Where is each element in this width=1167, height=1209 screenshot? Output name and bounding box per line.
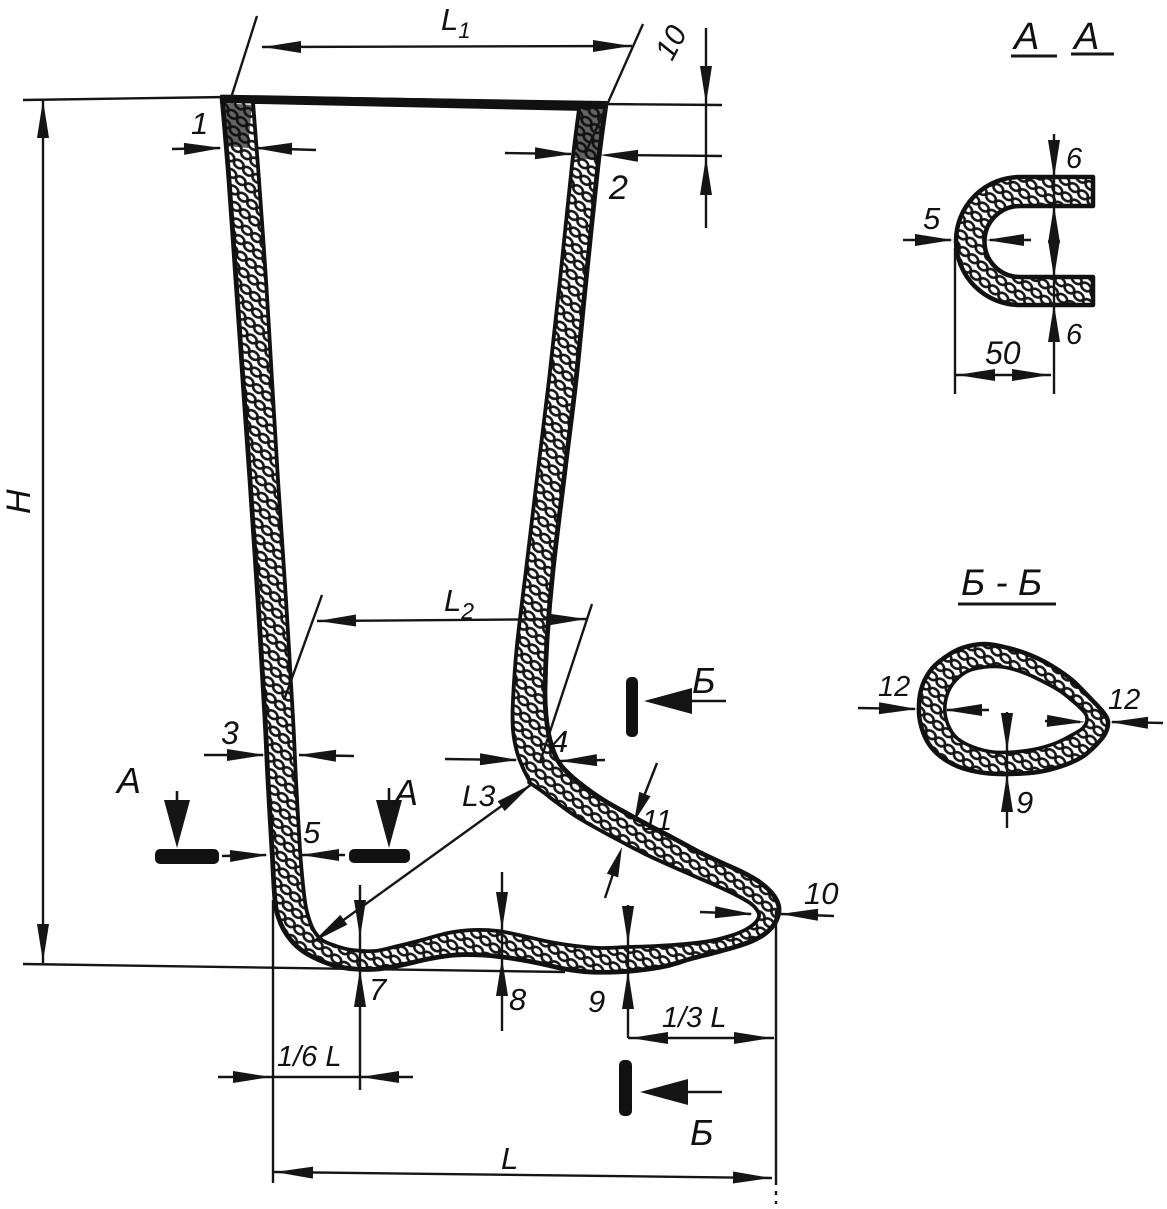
H dimension extension line top — [23, 97, 228, 100]
svg-text:6: 6 — [1066, 319, 1083, 351]
callout 9 line and arrows — [627, 905, 629, 1038]
1/6 L dimension line — [218, 1076, 413, 1078]
svg-text:Б: Б — [690, 1112, 713, 1153]
toe extension line — [775, 910, 777, 1185]
10 top dimension vertical line — [705, 28, 707, 228]
svg-text:L: L — [501, 1141, 518, 1176]
section Б marker top — [626, 677, 638, 737]
svg-text:4: 4 — [551, 724, 568, 759]
section A marker right — [349, 849, 410, 863]
L1 right extension (slanted) — [586, 24, 643, 152]
svg-text:12: 12 — [1108, 684, 1140, 716]
callout 4 arrows — [445, 759, 516, 760]
L dimension line — [274, 1172, 772, 1178]
section Б-Б egg profile — [919, 644, 1108, 774]
callout 1 arrows — [172, 148, 220, 149]
dark felt blob at left wall top — [224, 103, 252, 148]
callout 3 arrows — [204, 754, 263, 756]
section A marker left — [155, 849, 219, 864]
10 top extension lines — [600, 104, 722, 105]
svg-text:А: А — [392, 772, 418, 813]
section Б marker bottom — [619, 1060, 632, 1116]
svg-text:Н: Н — [0, 489, 38, 514]
svg-text:А: А — [1012, 16, 1039, 58]
Б-Б dimension 9 — [1006, 712, 1008, 828]
L2 dimension line — [317, 619, 587, 621]
svg-text:А: А — [115, 760, 141, 801]
svg-text:Б: Б — [692, 660, 715, 701]
svg-text:2: 2 — [608, 169, 628, 207]
boot wall felt texture ring — [222, 97, 779, 972]
svg-text:7: 7 — [369, 972, 388, 1007]
svg-text:L2: L2 — [444, 583, 474, 624]
boot top rim thick edge — [220, 99, 607, 105]
L2 left extension — [284, 595, 322, 700]
H dimension vertical line — [42, 99, 44, 963]
heel extension line — [272, 900, 274, 1183]
Б-Б dimension 12 right — [1112, 722, 1163, 723]
svg-text:5: 5 — [303, 815, 321, 850]
svg-text:9: 9 — [1016, 785, 1033, 820]
svg-text:8: 8 — [509, 982, 527, 1017]
svg-text:10: 10 — [649, 20, 694, 65]
Б-Б dimension 12 left — [858, 708, 915, 709]
L1 left extension (slanted) — [231, 16, 257, 98]
callout 5 arrows — [222, 855, 266, 856]
L2 right extension — [540, 604, 592, 762]
callout 7 line and arrows — [359, 885, 361, 1090]
L1 dimension line — [262, 46, 632, 47]
A-A dimension vertical line — [1053, 134, 1055, 394]
svg-text:12: 12 — [878, 671, 910, 703]
svg-text:1/6 L: 1/6 L — [277, 1041, 342, 1073]
svg-text:Б - Б: Б - Б — [961, 562, 1042, 603]
svg-text:11: 11 — [642, 805, 672, 837]
callout 11 arrows — [637, 763, 657, 814]
L3 diagonal line — [313, 784, 532, 942]
svg-text:L1: L1 — [441, 2, 471, 43]
callout 8 line and arrows — [501, 872, 503, 1031]
svg-text:А: А — [1072, 16, 1099, 58]
dark felt blob at right wall top — [574, 107, 605, 160]
svg-text:9: 9 — [588, 984, 605, 1019]
svg-text:L3: L3 — [462, 780, 496, 813]
svg-text:50: 50 — [985, 335, 1021, 371]
svg-text:5: 5 — [923, 201, 941, 236]
boot outer outline — [222, 97, 779, 972]
callout 10 toe arrows — [700, 912, 751, 914]
boot inner outline — [253, 102, 759, 951]
callout 2 arrows — [505, 153, 571, 154]
A-A dimension 5 arrows — [903, 239, 951, 241]
A-A dimension 50 — [954, 248, 956, 394]
svg-text:1: 1 — [191, 106, 208, 141]
section A-A C-shape profile — [956, 177, 1093, 305]
svg-text:6: 6 — [1066, 143, 1083, 175]
1/3 L dimension line — [628, 1037, 774, 1039]
svg-text:1/3 L: 1/3 L — [662, 1002, 727, 1034]
H dimension extension line bottom (base line) — [23, 964, 565, 972]
svg-text:10: 10 — [804, 876, 838, 911]
svg-text:3: 3 — [221, 715, 239, 751]
